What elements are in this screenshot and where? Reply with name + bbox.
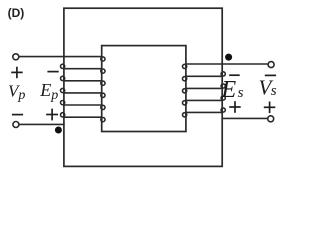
primary terminal (bottom, -) bbox=[13, 122, 19, 128]
wire: primary top lead from terminal to winding bbox=[19, 56, 64, 58]
svg-text:E: E bbox=[39, 80, 51, 100]
polarity dot, primary winding bbox=[55, 127, 62, 134]
plus sign Ep bottom bbox=[46, 109, 58, 121]
secondary terminal (top, -) bbox=[268, 62, 274, 68]
primary winding Ep turn 2 bbox=[61, 64, 106, 73]
plus sign Es bottom bbox=[229, 101, 241, 113]
polarity dot, secondary winding bbox=[225, 54, 232, 61]
wire: secondary top lead from winding to terminal bbox=[222, 63, 268, 65]
secondary winding Es turn 3 bbox=[183, 84, 226, 93]
svg-text:p: p bbox=[17, 88, 25, 103]
minus sign Es top bbox=[229, 74, 240, 76]
svg-text:(D): (D) bbox=[8, 6, 25, 20]
secondary winding Es turn 4 bbox=[183, 96, 226, 105]
minus sign at primary bottom terminal bbox=[12, 114, 23, 116]
primary winding Ep turn 6 bbox=[61, 113, 106, 122]
svg-text:s: s bbox=[271, 83, 277, 99]
minus sign Vs top bbox=[265, 74, 276, 76]
secondary winding Es turn 5 bbox=[183, 108, 226, 117]
primary terminal (top, +) bbox=[13, 54, 19, 60]
transformer core window (inner rectangle) bbox=[102, 46, 186, 132]
svg-text:p: p bbox=[50, 88, 58, 103]
svg-text:s: s bbox=[238, 85, 244, 101]
secondary terminal (bottom, +) bbox=[268, 116, 274, 122]
secondary winding Es turn 1 bbox=[183, 64, 223, 69]
plus sign at primary top terminal bbox=[11, 67, 23, 79]
wire: primary bottom lead from terminal to core edge bbox=[19, 123, 65, 125]
primary winding Ep turn 1 bbox=[64, 57, 105, 62]
plus sign Vs bottom bbox=[264, 102, 276, 114]
primary winding Ep turn 4 bbox=[61, 88, 106, 97]
svg-text:E: E bbox=[221, 77, 237, 103]
primary winding Ep turn 5 bbox=[61, 101, 106, 110]
primary winding Ep turn 3 bbox=[61, 76, 106, 85]
wire: secondary bottom lead from core edge to terminal bbox=[222, 117, 268, 119]
transformer core outer boundary bbox=[64, 8, 222, 166]
secondary winding Es turn 2 bbox=[183, 72, 226, 81]
minus sign Ep top bbox=[47, 71, 58, 73]
